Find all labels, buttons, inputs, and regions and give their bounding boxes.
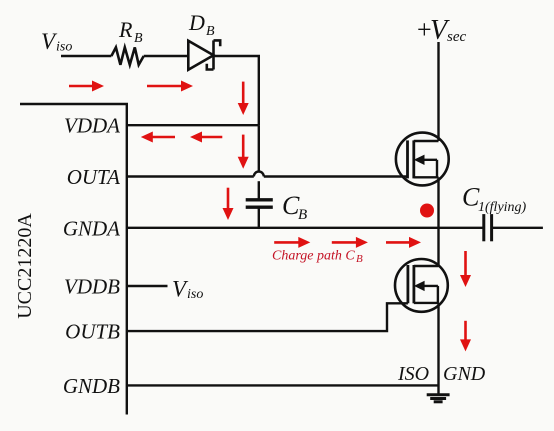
current arrow right A8 (charge path 1) [274,237,310,248]
pin label VDDA [64,114,120,138]
node Viso at VDDB [172,276,203,302]
node switch red dot [420,204,434,218]
svg-text:D: D [188,10,205,35]
current arrow down A6 (to OUTA) [238,135,249,169]
svg-text:B: B [134,31,143,46]
node Viso source label [41,29,72,55]
resistor RB [111,47,143,64]
svg-text:B: B [356,253,363,265]
wire Q1 source to GNDA junction [437,177,439,228]
capacitor C1 flying [484,214,492,241]
pin label OUTB [65,320,120,344]
svg-text:ISO: ISO [397,363,429,385]
current arrow down A7 (left of CB) [223,188,234,220]
pin label GNDA [63,216,120,240]
wire Q2 source to GNDB junction and ground [437,303,439,395]
svg-text:GNDA: GNDA [63,216,120,240]
current arrow left A4 (VDDA inner) [141,132,175,143]
current arrow right A10 (charge path 3) [386,237,421,248]
wire Vsec to Q1 drain [437,42,439,141]
wire OUTB pin with step up to Q2 gate [127,303,408,331]
label ISO GND [397,363,486,385]
diode DB (Schottky) [188,40,220,69]
current arrow right A2 (after RB) [147,81,193,92]
svg-text:R: R [118,17,133,42]
wire RB to DB [144,55,189,57]
wire VDDA node down to CB top (crosses OUTA via hop) [258,125,260,199]
transistor Q1 (upper NMOS) [396,133,449,186]
IC U1 UCC21220A outline [20,104,127,415]
svg-text:iso: iso [187,287,203,302]
wire CB bottom to GNDA [258,207,260,228]
svg-text:iso: iso [56,40,72,55]
svg-text:VDDA: VDDA [64,114,120,138]
wire VDDA pin [127,124,259,126]
wire DB to corner and down to VDDA node [214,56,259,125]
svg-text:1(flying): 1(flying) [478,200,527,215]
wire GNDA pin (to C1 left plate) [127,227,484,229]
current arrow down A12 (right lower) [460,321,471,352]
svg-text:GNDB: GNDB [63,374,120,398]
svg-text:B: B [298,207,307,223]
wire GNDA junction to Q2 drain [437,228,439,266]
label charge path CB [272,249,363,266]
capacitor CB [246,200,273,207]
pin label VDDB [64,274,120,298]
current arrow right A1 (top left) [69,81,104,92]
transistor Q2 (lower NMOS) [395,259,448,312]
power +Vsec label [417,15,466,46]
svg-text:GND: GND [443,363,486,385]
label RB [118,17,143,46]
pin label GNDB [63,374,120,398]
current arrow down A11 (right of C1 upper) [460,251,471,287]
current arrow down A3 (after DB) [238,82,249,115]
svg-text:VDDB: VDDB [64,274,120,298]
wire C1 right [492,227,543,229]
label C1(flying) [462,183,527,215]
svg-text:OUTB: OUTB [65,320,120,344]
wire OUTA pin with hop over vertical wire, to Q1 gate [127,172,408,177]
label CB [282,191,307,223]
wire VDDB stub [127,285,168,287]
IC label UCC21220A [14,213,36,319]
svg-text:B: B [206,24,215,39]
svg-text:sec: sec [447,29,466,45]
wire GNDB pin [127,384,439,386]
wire Viso to RB [61,55,111,57]
label DB [188,10,215,39]
svg-text:UCC21220A: UCC21220A [14,213,36,319]
svg-text:Charge path C: Charge path C [272,249,355,264]
pin label OUTA [67,165,120,189]
ground ISO GND symbol [427,395,450,402]
current arrow right A9 (charge path 2) [332,237,368,248]
svg-text:OUTA: OUTA [67,165,120,189]
current arrow left A5 (VDDA outer) [190,132,222,143]
